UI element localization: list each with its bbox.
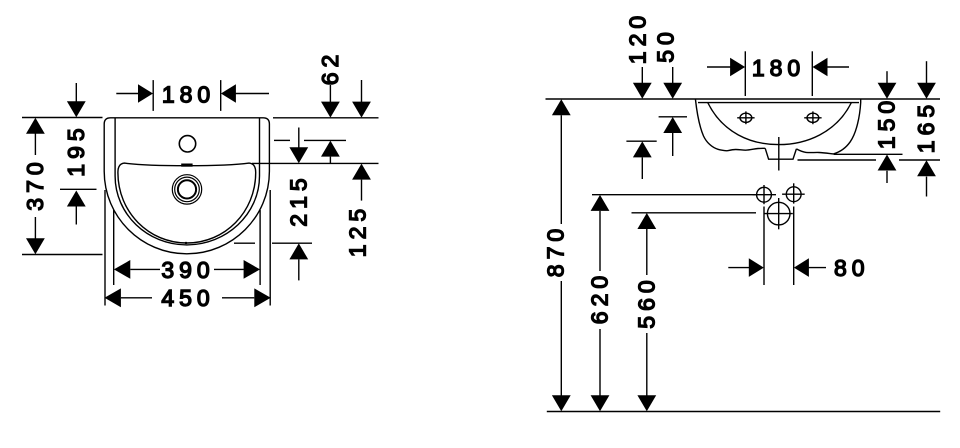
svg-text:80: 80 xyxy=(834,255,870,281)
svg-text:125: 125 xyxy=(345,204,371,257)
dim 125: up arrow to ledge line + leader xyxy=(352,164,371,180)
dim 165: up arrow + leader xyxy=(917,160,936,176)
560 reference line xyxy=(632,212,757,214)
dim 80: extension line right xyxy=(793,207,795,286)
svg-text:870: 870 xyxy=(542,224,568,277)
dim 120: leader + down arrow to rim xyxy=(641,67,643,85)
extension line A right (top edge) xyxy=(273,117,379,119)
bottom wave left xyxy=(727,148,765,151)
dim 180 right: right tail + arrow xyxy=(827,66,849,68)
svg-text:120: 120 xyxy=(624,11,650,64)
drain outer circle xyxy=(172,175,201,204)
drain inner circle xyxy=(178,180,196,198)
floor line xyxy=(547,411,940,413)
right silhouette xyxy=(833,99,860,154)
svg-text:560: 560 xyxy=(633,275,659,328)
dim 870: down arrow at floor xyxy=(552,395,571,411)
dim 215: leader + down arrow to ledge line xyxy=(298,128,300,149)
165 reference line xyxy=(798,159,877,161)
faucet centreline extension (62 line) xyxy=(274,139,290,141)
dim 125: leader + down arrow to top edge xyxy=(361,80,363,104)
svg-text:370: 370 xyxy=(22,157,48,210)
dim 180 top: left tail and arrow xyxy=(116,93,138,95)
svg-text:195: 195 xyxy=(63,123,89,176)
drain pipe hole xyxy=(767,202,790,225)
dim 870: up arrow at rim xyxy=(552,99,571,115)
inner bowl arc xyxy=(708,103,852,145)
dim 390: left arrow + tail xyxy=(114,260,130,279)
dim 180 top: right tail and arrow xyxy=(236,93,270,95)
dim 370: line segments xyxy=(34,133,36,155)
bowl cavity with rear ledge xyxy=(118,163,256,243)
150 reference line xyxy=(834,153,903,155)
dim 870: line segments xyxy=(560,115,562,224)
svg-text:62: 62 xyxy=(317,50,343,86)
dim 80: right tail + arrow xyxy=(809,267,826,269)
dim 50: up arrow + leader xyxy=(663,117,682,133)
svg-text:390: 390 xyxy=(161,257,214,283)
drain centreline xyxy=(778,137,780,171)
svg-text:150: 150 xyxy=(874,96,900,149)
dim 165: leader + down arrow to rim xyxy=(926,61,928,85)
face hole right xyxy=(807,113,819,122)
extension line bottom left xyxy=(22,254,103,256)
dim 150: up arrow + leader xyxy=(878,155,897,171)
dim 450: right arrow + tail xyxy=(254,288,270,307)
dim 390: right arrow + tail xyxy=(244,260,260,279)
svg-text:180: 180 xyxy=(752,55,805,81)
dim 180 top: extension line right xyxy=(220,80,222,111)
dim 195: bottom up arrow below drain line and leader xyxy=(67,191,86,207)
dim 120: up arrow + leader xyxy=(633,141,652,157)
dim 560: up arrow at drain hole line xyxy=(637,213,656,229)
siphon outlet trapezoid xyxy=(765,148,796,159)
dim 180 right: left tail + arrow xyxy=(707,66,731,68)
svg-text:450: 450 xyxy=(161,285,214,311)
svg-text:165: 165 xyxy=(913,100,939,153)
dim 62: leader + down arrow to top edge xyxy=(329,85,331,104)
wall fixing hole left xyxy=(757,187,772,202)
dim 50: leader + down arrow to rim xyxy=(672,67,674,85)
dim 450: extension line right xyxy=(269,190,271,306)
dim 620: up arrow at holes line xyxy=(591,195,610,211)
dim 560: down arrow at floor xyxy=(637,395,656,411)
face hole left xyxy=(740,113,752,122)
120 reference line xyxy=(626,140,656,142)
dim 180 top: extension line left xyxy=(152,80,154,111)
dim 450: left arrow + tail xyxy=(105,288,121,307)
overflow slot mark xyxy=(181,164,192,167)
left silhouette xyxy=(695,99,727,151)
dim 195: top leader and down arrow above line A xyxy=(75,83,77,103)
dim 370: top arrow (up) xyxy=(26,118,45,134)
extension line A left (top edge) xyxy=(22,117,103,119)
dim 390: extension line left xyxy=(113,210,115,285)
dim 450: extension line left xyxy=(104,190,106,306)
wall fixing hole right xyxy=(786,187,801,202)
svg-text:215: 215 xyxy=(285,173,311,226)
basin outer outline xyxy=(104,118,269,254)
rim top line with extensions xyxy=(546,98,941,100)
ledge extension line (125 line) xyxy=(252,162,379,164)
svg-text:620: 620 xyxy=(587,271,613,324)
620 reference line xyxy=(592,194,756,196)
drain centre extension line xyxy=(60,188,97,190)
svg-text:180: 180 xyxy=(162,81,215,107)
bowl bottom extension line (215 line) xyxy=(234,242,255,244)
50 reference line xyxy=(659,116,687,118)
dim 62: up arrow to faucet line + leader xyxy=(321,141,340,157)
svg-text:50: 50 xyxy=(653,27,679,63)
dim 620: down arrow at floor xyxy=(591,395,610,411)
faucet hole xyxy=(179,136,195,152)
rim band bottom line xyxy=(698,102,859,104)
dim 215: up arrow to bowl bottom line + leader xyxy=(289,243,308,259)
basin inner rim offset line xyxy=(115,119,259,245)
dim 370: bottom arrow (down) xyxy=(26,238,45,254)
bottom wave right xyxy=(796,149,833,154)
dim 390: extension line right xyxy=(259,210,261,285)
bowl bottom junction dot xyxy=(185,242,187,244)
dim 180 right: extension lines xyxy=(744,51,746,96)
dim 560: line segments xyxy=(646,229,648,275)
dim 80: extension line left xyxy=(763,207,765,286)
drain middle circle xyxy=(175,177,200,202)
dim 620: line segments xyxy=(599,211,601,271)
dim 150: leader + down arrow to rim xyxy=(886,71,888,85)
dim 80: left tail + arrow xyxy=(728,267,749,269)
